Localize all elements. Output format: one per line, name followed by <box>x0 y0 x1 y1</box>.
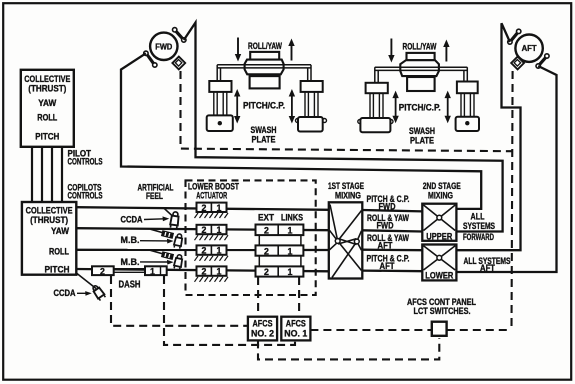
box: 1st stage mixing unit <box>329 202 363 278</box>
svg-text:PLATE: PLATE <box>252 135 276 145</box>
swash plate stack <box>250 52 279 60</box>
box: AFCS NO. 2 <box>248 317 277 341</box>
svg-text:2: 2 <box>202 267 207 277</box>
svg-text:ACTUATOR: ACTUATOR <box>196 190 227 200</box>
svg-text:2: 2 <box>264 246 269 256</box>
svg-text:1: 1 <box>217 246 222 256</box>
svg-text:AFCS: AFCS <box>286 318 306 328</box>
svg-text:FWD: FWD <box>155 42 172 51</box>
svg-text:M.B.: M.B. <box>121 257 140 267</box>
device: CCDA on collective row <box>164 208 180 229</box>
wire: yaw row <box>76 228 329 230</box>
wire: roll row <box>76 249 329 251</box>
box: ext link pitch <box>256 266 304 277</box>
svg-text:AFT: AFT <box>480 263 495 273</box>
device: M.B. on yaw row <box>151 229 184 249</box>
rotor circle <box>150 33 177 60</box>
svg-text:CCDA: CCDA <box>121 214 143 224</box>
svg-text:ROLL/YAW: ROLL/YAW <box>403 42 437 52</box>
svg-text:(THRUST): (THRUST) <box>30 215 68 225</box>
wire: 1st to 2nd stage line4 <box>362 269 422 272</box>
svg-text:2: 2 <box>264 226 269 236</box>
box: AFCS NO. 1 <box>281 317 310 341</box>
svg-text:1: 1 <box>217 203 222 213</box>
svg-text:AFT: AFT <box>522 44 537 53</box>
rail <box>375 67 468 83</box>
box: LCT switch <box>432 322 447 336</box>
wire: dashed ext link to AFCS NO.2 <box>257 277 259 317</box>
svg-text:PITCH: PITCH <box>35 131 59 141</box>
svg-text:YAW: YAW <box>38 98 56 108</box>
svg-text:SWASH: SWASH <box>251 125 277 135</box>
svg-text:UPPER: UPPER <box>426 231 452 241</box>
wire: dashed boost enclosure <box>186 180 316 295</box>
svg-text:CONTROLS: CONTROLS <box>68 157 103 167</box>
svg-text:PITCH/C.P.: PITCH/C.P. <box>399 102 441 112</box>
svg-text:COLLECTIVE: COLLECTIVE <box>26 205 73 215</box>
wire: ext link connectors <box>259 235 301 267</box>
svg-text:COLLECTIVE: COLLECTIVE <box>24 74 70 84</box>
svg-text:FWD: FWD <box>379 202 396 212</box>
svg-text:PLATE: PLATE <box>410 136 434 146</box>
svg-text:SWASH: SWASH <box>409 126 435 136</box>
svg-text:1: 1 <box>288 246 293 256</box>
box: dash actuator 1 <box>145 266 167 276</box>
wire: all systems forward (upper out1 right-up-left to FWD lower blade) <box>121 53 481 209</box>
svg-text:YAW: YAW <box>51 226 69 236</box>
svg-text:NO. 1: NO. 1 <box>284 328 308 339</box>
svg-text:ROLL/YAW: ROLL/YAW <box>248 41 282 51</box>
svg-text:FWD: FWD <box>377 221 394 231</box>
svg-text:2: 2 <box>202 246 207 256</box>
device: CCDA below pitch <box>77 274 106 302</box>
box: boost actuator collective <box>195 203 229 218</box>
svg-text:2: 2 <box>100 266 105 276</box>
blade link lower right <box>536 54 549 68</box>
wire: dash rod <box>114 268 145 270</box>
diamond swivel <box>511 57 524 70</box>
boost actuator boxes with ground hatching <box>195 203 229 282</box>
svg-text:1ST STAGE: 1ST STAGE <box>328 181 364 191</box>
svg-text:DASH: DASH <box>119 279 141 290</box>
rotor circle <box>515 35 542 62</box>
arrow down <box>390 39 392 57</box>
wire: collective row (box2 to 1st stage) <box>76 207 329 210</box>
wire: dashed FWD diamond down and across to AFT dashed <box>181 71 513 151</box>
svg-text:1: 1 <box>217 225 222 235</box>
wire: dashed LCT box to aft riser <box>447 329 512 331</box>
svg-text:2: 2 <box>264 267 269 277</box>
pitch/cp double arrows <box>392 91 451 124</box>
svg-text:PITCH/C.P.: PITCH/C.P. <box>243 100 285 110</box>
svg-text:FEEL: FEEL <box>146 191 163 201</box>
svg-text:EXT: EXT <box>258 212 274 222</box>
svg-text:CCDA: CCDA <box>54 288 76 298</box>
left actuator <box>366 83 388 93</box>
svg-text:1: 1 <box>217 267 222 277</box>
svg-text:AFT: AFT <box>378 240 393 250</box>
arrow up <box>445 45 447 62</box>
wire: all systems aft (lower out2 right-up to AFT lower blade) <box>456 66 556 272</box>
svg-text:2ND STAGE: 2ND STAGE <box>423 181 461 191</box>
svg-text:MIXING: MIXING <box>335 191 361 201</box>
right actuator <box>301 81 323 92</box>
svg-text:LOWER: LOWER <box>425 271 453 281</box>
rotor: AFT <box>508 29 549 69</box>
wire: dashed ext link to AFCS NO.1 <box>298 277 300 317</box>
box: dash actuator 2 <box>92 266 114 276</box>
wire: 1st to 2nd stage line3 <box>362 249 422 252</box>
svg-text:1: 1 <box>288 226 293 236</box>
svg-text:ROLL: ROLL <box>49 246 69 256</box>
svg-text:NO. 2: NO. 2 <box>251 328 274 339</box>
wire: pitch row <box>76 269 329 271</box>
svg-text:M.B.: M.B. <box>121 235 140 245</box>
svg-text:ROLL: ROLL <box>37 112 57 122</box>
svg-text:AFT: AFT <box>380 261 395 271</box>
blade link lower left <box>144 51 157 67</box>
arrow down <box>237 38 239 56</box>
device: M.B. on roll row <box>151 250 184 269</box>
box: boost actuator yaw <box>195 225 229 240</box>
svg-text:CONTROLS: CONTROLS <box>68 191 103 201</box>
diamond swivel <box>172 57 185 70</box>
wire: four control rods <box>32 147 62 202</box>
wire: dashed from DASH box 2 down to AFCS NO.2 <box>111 276 248 326</box>
blade link upper right <box>173 28 187 43</box>
box: 2nd stage lower <box>422 245 456 281</box>
svg-text:2: 2 <box>202 203 207 213</box>
svg-text:ALL: ALL <box>471 211 485 221</box>
svg-text:LCT SWITCHES.: LCT SWITCHES. <box>414 306 471 316</box>
box: boost actuator pitch <box>195 266 229 281</box>
wire: 1st to 2nd stage line2 <box>362 230 422 231</box>
svg-text:FORWARD: FORWARD <box>463 232 494 242</box>
pitch/cp double arrows <box>234 89 295 124</box>
svg-text:2: 2 <box>202 225 207 235</box>
rotor: FWD <box>144 28 186 70</box>
blade link upper left <box>508 29 521 44</box>
box: boost actuator roll <box>195 245 229 260</box>
rail <box>217 65 311 81</box>
wire: dashed AFCS NO.1 to LCT box <box>310 329 432 331</box>
svg-text:AFCS: AFCS <box>253 318 273 328</box>
wire: dashed from DASH box 1 down to AFCS NO.1 <box>164 276 295 345</box>
svg-text:SYSTEMS: SYSTEMS <box>463 221 495 231</box>
svg-text:1: 1 <box>150 266 155 276</box>
wire: dashed AFCS NO.2 bottom loop to LCT box <box>258 338 439 359</box>
box: collective thrust (lower) <box>22 202 76 275</box>
box: ext link roll <box>256 245 304 256</box>
svg-text:(THRUST): (THRUST) <box>28 84 66 94</box>
box: pilot controls (top) <box>21 70 74 147</box>
arrow up <box>291 44 293 61</box>
box: ext link yaw <box>256 225 304 236</box>
swash plate stack <box>407 53 435 60</box>
wire: all systems aft (lower out1 right-up-jog to AFT peak) <box>456 23 520 250</box>
box: 2nd stage upper <box>422 204 456 242</box>
wire: all systems forward (upper out2 right-up-left to FWD peak) <box>184 23 503 232</box>
svg-text:PITCH: PITCH <box>45 264 70 274</box>
svg-text:LINKS: LINKS <box>281 212 303 222</box>
wire: 1st to 2nd stage line1 <box>362 210 422 211</box>
left actuator <box>209 81 231 92</box>
right actuator <box>457 82 478 94</box>
svg-text:1: 1 <box>288 267 293 277</box>
arrow to CCDA <box>144 218 164 221</box>
svg-text:MIXING: MIXING <box>428 191 453 201</box>
wire: dashed AFT diamond down to LCT line <box>512 71 513 330</box>
